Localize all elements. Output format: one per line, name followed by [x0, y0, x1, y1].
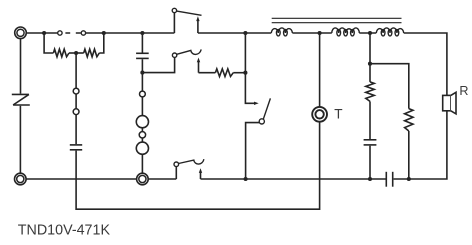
junction node F [243, 71, 247, 75]
switch S4 pivot contact [174, 162, 179, 167]
wire between contacts [75, 94, 77, 109]
svg-text:T: T [334, 107, 342, 122]
inductor L2 [332, 28, 360, 36]
junction node C [140, 31, 144, 35]
inductor L1 [271, 28, 292, 36]
capacitor C4 (series, bottom rail) [386, 172, 392, 187]
transformer core [272, 18, 402, 22]
terminal (top-left line input) [15, 27, 27, 39]
wire right leg of resistor pair [99, 33, 104, 53]
switch S2 actuator arrow [197, 58, 200, 73]
wire from C3 to bottom rail [369, 146, 371, 179]
wire top rail from terminal to contact [26, 32, 57, 34]
wire from R5 to bottom rail [408, 131, 410, 179]
speaker R [443, 92, 456, 114]
switch S4 pivot stub [175, 167, 177, 179]
switch S1 actuator arrow [196, 16, 199, 33]
inductor L3 [376, 28, 403, 36]
switch S4 actuator arrow [199, 168, 202, 179]
wire from node G down to switch S3 arrow [245, 33, 254, 103]
capacitor C2 [136, 53, 149, 58]
junction node K [368, 177, 372, 181]
svg-text:TND10V-471K: TND10V-471K [18, 222, 111, 238]
resistor R2 [84, 49, 100, 57]
junction node M [244, 177, 248, 181]
junction node A [42, 31, 46, 35]
switch S2 blade with hook [177, 49, 202, 54]
wire from node H down to terminal T [319, 33, 321, 107]
junction node I [368, 31, 372, 35]
junction node J [368, 62, 372, 66]
wire from contact to capacitor C1 [75, 115, 77, 145]
contact circle (upper, left branch) [73, 88, 79, 94]
wire branch node J to R5 [370, 64, 409, 109]
wire between L2 and L3 [359, 32, 376, 34]
junction node E [140, 71, 144, 75]
junction node G [243, 31, 247, 35]
wire from node D down to contact [75, 53, 77, 88]
wire from R3 to node F [233, 72, 245, 74]
wire [141, 97, 143, 116]
terminal T [312, 107, 327, 122]
wire [141, 138, 143, 142]
dashed link between contacts [65, 32, 80, 34]
wire [141, 128, 143, 132]
wire from speaker down to bottom rail corner [394, 111, 447, 179]
junction node L [407, 177, 411, 181]
wire left column from top terminal to varistor Z [20, 39, 22, 94]
thermal link contact circle (left) [58, 31, 62, 35]
switch S3 blade [263, 98, 270, 119]
junction node H [318, 31, 322, 35]
junction node D (between R1,R2) [74, 51, 78, 55]
varistor Z (surge element) [12, 94, 30, 105]
contact circle (lower, left branch) [73, 109, 79, 115]
switch S1 pivot contact [172, 8, 176, 12]
resistor R5 [405, 109, 413, 131]
terminal (bottom-left) [14, 173, 26, 185]
switch S3 pivot contact [259, 119, 264, 124]
wire between R1 and R2 [69, 52, 84, 54]
wire from node I down to R4 [369, 33, 371, 82]
lamp circle large (chain) [136, 116, 148, 128]
contact circle small (chain middle) [139, 132, 145, 138]
resistor R4 [366, 82, 374, 102]
wire from R4 to capacitor C3 [369, 101, 371, 139]
svg-text:R: R [459, 84, 468, 98]
capacitor C1 [70, 145, 82, 150]
wire from arrow to R3 [199, 72, 216, 74]
switch S2 pivot contact [172, 53, 176, 57]
wire top rail from L3 to speaker drop [404, 33, 447, 95]
terminal (bottom middle) [137, 173, 149, 185]
junction node B [102, 31, 106, 35]
resistor R3 [215, 69, 233, 77]
wire top rail from contact to switch S1 [86, 32, 175, 34]
switch S1 pivot stub [173, 13, 175, 33]
wire bottom rail from terminal 2 to switch S4 [148, 178, 176, 180]
capacitor C3 [364, 140, 377, 145]
wire from S3 pivot down to bottom rail [246, 123, 260, 179]
wire between L1 and L2 [292, 32, 331, 34]
wire top rail from S1 to coil L1 [198, 32, 271, 34]
wire bottom rail from terminal to terminal 2 [26, 178, 137, 180]
switch S1 blade [177, 11, 202, 15]
wire left leg of resistor pair [44, 33, 53, 53]
wire from C1 down and along lower return line to T lead [76, 122, 320, 209]
wire branch node E to switch S2 pivot [142, 57, 174, 72]
wire bottom rail from switch S4 to C4 [201, 178, 387, 180]
switch S3 actuator arrow (horizontal) [254, 102, 259, 105]
wire from C2 to contact chain [141, 59, 143, 91]
wire left column from Z to bottom terminal [19, 106, 21, 173]
lamp circle large (chain lower) [136, 142, 148, 154]
thermal link contact circle (right) [81, 31, 85, 35]
contact circle small (chain top) [140, 91, 146, 97]
switch S4 blade with hook [179, 159, 204, 164]
resistor R1 [53, 49, 69, 57]
wire from chain to terminal [141, 154, 143, 173]
wire middle chain from node C to capacitor C2 [141, 33, 143, 53]
